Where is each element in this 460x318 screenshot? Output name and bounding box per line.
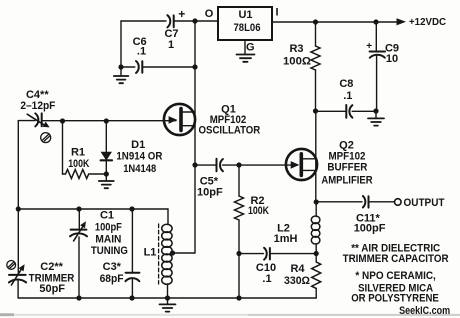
svg-text:C3*: C3*	[103, 261, 122, 273]
node L1 tap	[170, 250, 175, 255]
ground below D1	[105, 174, 107, 181]
node ground rail / C3	[129, 295, 134, 300]
wire 6V rail from node down to Q1 drain and C5	[194, 21, 196, 253]
node left rail / tank rail	[16, 206, 21, 211]
svg-text:78L06: 78L06	[234, 22, 261, 34]
resistor R1	[62, 121, 64, 174]
svg-text:1: 1	[168, 39, 174, 51]
wire Q2 drain up to R3 node	[315, 111, 317, 202]
svg-text:BUFFER: BUFFER	[327, 162, 367, 174]
svg-text:2–12pF: 2–12pF	[20, 100, 55, 112]
node gate line / R1	[60, 118, 65, 123]
svg-text:100pF: 100pF	[95, 222, 122, 234]
wire C5 to Q2 gate	[223, 164, 298, 166]
ground below C8/C9 node	[375, 111, 377, 118]
svg-text:+: +	[178, 7, 185, 21]
trimmer capacitor C2	[9, 275, 26, 283]
diode D1	[105, 121, 107, 152]
wire gate line Q1	[18, 120, 35, 122]
node L2 / C10 / R4	[314, 251, 319, 256]
svg-text:50pF: 50pF	[39, 283, 65, 295]
wire C8 left	[316, 110, 346, 112]
node ground rail / L1 / ground	[165, 295, 170, 300]
wire C10 right	[270, 253, 316, 255]
svg-text:100K: 100K	[248, 205, 269, 217]
node +12V / R3	[313, 19, 318, 24]
node tank rail / C3	[129, 206, 134, 211]
svg-text:10pF: 10pF	[197, 186, 223, 198]
tank top rail	[18, 208, 168, 210]
svg-text:+: +	[366, 41, 372, 52]
svg-text:* NPO CERAMIC,: * NPO CERAMIC,	[355, 270, 436, 282]
resistor R2	[238, 165, 240, 196]
trimmer capacitor C4	[35, 113, 41, 126]
svg-text:68pF: 68pF	[100, 273, 124, 285]
node C6 ground side	[118, 64, 123, 69]
svg-text:10: 10	[386, 53, 398, 65]
output terminal circle	[395, 199, 402, 206]
node C6 / 6V rail	[192, 64, 197, 69]
svg-text:OSCILLATOR: OSCILLATOR	[199, 125, 261, 137]
svg-text:TUNING: TUNING	[91, 245, 128, 257]
svg-text:100K: 100K	[68, 158, 89, 170]
svg-text:1N914 OR: 1N914 OR	[116, 150, 162, 162]
wire lower horizontal to C6	[121, 66, 135, 68]
svg-text:D1: D1	[131, 139, 145, 151]
svg-text:MPF102: MPF102	[329, 150, 366, 162]
svg-text:C2**: C2**	[40, 261, 63, 273]
svg-text:MAIN: MAIN	[95, 234, 121, 246]
svg-text:.1: .1	[262, 273, 271, 285]
node C8 / C9 / ground	[373, 108, 378, 113]
capacitor C10	[264, 248, 270, 260]
capacitor C3	[131, 209, 133, 273]
ground below bottom rail	[167, 298, 169, 304]
svg-text:100Ω: 100Ω	[283, 56, 311, 68]
svg-text:.1: .1	[137, 46, 146, 58]
wire Q2 source to C11	[316, 201, 362, 203]
wire node to U1 O pin	[195, 20, 218, 22]
svg-text:+12VDC: +12VDC	[409, 17, 446, 28]
node Q2 source / L2 / C11	[314, 199, 319, 204]
scan streak bottom edge	[0, 314, 460, 316]
svg-text:1mH: 1mH	[274, 233, 298, 245]
svg-text:I: I	[275, 7, 278, 19]
svg-text:U1: U1	[238, 9, 252, 21]
node rail / C5	[192, 162, 197, 167]
node ground rail / R2	[236, 295, 241, 300]
capacitor C9	[375, 22, 377, 51]
svg-text:AMPLIFIER: AMPLIFIER	[321, 175, 372, 187]
wire top-left horizontal to C7	[121, 20, 166, 22]
inductor L2	[311, 216, 320, 244]
IC U1 78L06 box	[218, 7, 272, 40]
wire U1 I pin to +12VDC	[272, 21, 398, 23]
transistor Q1 MPF102	[164, 104, 195, 135]
resistor R4	[312, 262, 321, 288]
wire C8 right	[352, 110, 376, 112]
node D1 / R1 / ground	[104, 171, 109, 176]
inductor L1 with adjustable core	[167, 209, 169, 225]
transistor Q2 MPF102	[286, 149, 317, 180]
capacitor C5	[217, 159, 223, 172]
wire left vertical C6/C7 ground branch	[120, 21, 122, 67]
wire L1 tap to Q1 source rail	[173, 252, 196, 254]
arrowhead +12VDC	[397, 18, 407, 25]
capacitor C7	[167, 15, 173, 27]
screwdriver slot symbol for C4	[41, 133, 51, 143]
wire C5 left	[195, 164, 216, 166]
node C5 / R2 / Q2 gate	[236, 162, 241, 167]
svg-text:G: G	[246, 42, 255, 54]
wire C7 to node	[174, 20, 195, 22]
wire Q2 source node down	[315, 202, 317, 217]
ground below C6 branch	[120, 67, 122, 76]
svg-text:C7: C7	[164, 28, 178, 40]
svg-text:C1: C1	[100, 210, 114, 222]
U1 ground pin G	[244, 40, 246, 54]
wire C4 to Q1 gate	[42, 120, 176, 122]
svg-text:OUTPUT: OUTPUT	[404, 197, 445, 209]
svg-text:L1: L1	[144, 247, 157, 259]
capacitor C11	[363, 196, 369, 208]
svg-text:R4: R4	[290, 263, 305, 275]
node R2 / C10	[236, 251, 241, 256]
left rail from C4 down to tank	[17, 121, 19, 274]
svg-text:O: O	[205, 8, 214, 20]
resistor R3	[315, 22, 317, 46]
capacitor C8	[346, 105, 352, 118]
svg-text:100pF: 100pF	[354, 223, 386, 235]
svg-text:C8: C8	[339, 78, 353, 90]
screwdriver slot symbol for C2	[7, 261, 16, 270]
svg-text:330Ω: 330Ω	[284, 275, 310, 287]
svg-text:OR POLYSTYRENE: OR POLYSTYRENE	[351, 292, 439, 304]
node +12V / C9	[373, 19, 378, 24]
wire C10 left	[239, 253, 263, 255]
node ground rail / C1	[76, 295, 81, 300]
dashed core line L1	[158, 224, 160, 284]
svg-text:TRIMMER CAPACITOR: TRIMMER CAPACITOR	[343, 253, 449, 265]
wire C6 to node rail	[143, 66, 195, 68]
capacitor C6	[136, 61, 142, 73]
node tank rail / C1	[76, 206, 81, 211]
variable capacitor C1 main tuning	[78, 209, 80, 229]
wire L2/R4/C10 node	[315, 254, 317, 263]
svg-text:R3: R3	[289, 43, 303, 55]
node R3 / C8 / Q2 drain	[313, 108, 318, 113]
svg-text:1N4148: 1N4148	[123, 163, 156, 175]
svg-text:.1: .1	[343, 90, 352, 102]
bottom ground rail	[18, 297, 316, 299]
node gate line / D1	[104, 118, 109, 123]
node U1 output / C7 / Q1 drain rail	[192, 18, 197, 23]
wire C11 to output terminal	[369, 201, 395, 203]
